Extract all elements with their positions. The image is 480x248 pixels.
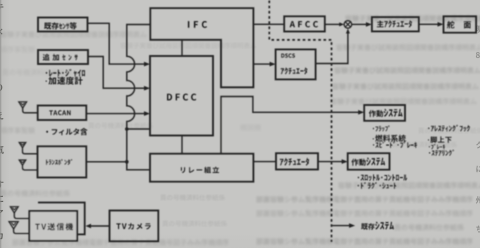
wire summing junction to 主アクチュエータ [352,23,367,25]
label 主アクチュエータ [377,20,412,28]
block TACAN [38,106,87,121]
antenna 1 for TV transmitter [10,207,18,213]
antenna for TACAN [19,102,27,108]
block 舵面 (control surface) [444,16,477,32]
arrowhead into summing junction left [339,22,344,26]
label アクチュエータ lower [280,158,309,166]
label レート・ジャイロ [46,69,85,77]
list item スロットル・コントロール [358,174,407,181]
summing junction circle [344,21,352,29]
wire AFCC to summing junction [325,23,340,25]
arrowhead into TV送信機 [86,224,92,228]
wire IFC-relay vertical bus with crossover hops [127,25,151,170]
arrowhead into 作動システム lower [342,159,348,164]
label 既存システム [361,222,394,230]
list item ドラグ・シュート [358,182,397,189]
list item ステアリング [429,150,454,156]
block AFCC [284,16,325,31]
label TACAN [49,110,70,115]
block アクチュエータ lower (actuator) [276,153,318,169]
wire トランスポンダ output [86,161,127,163]
arrowhead into DFCC input 1 [144,62,150,67]
wire TACAN to DFCC [86,113,145,115]
label AFCC [290,21,318,27]
label DSCS [281,54,295,58]
list item 脚上下 [428,136,452,143]
label 追加センサ [43,54,78,61]
label 作動システム upper [369,109,403,117]
block 追加センサ (added sensors) [38,50,88,64]
junction bus-transponder [125,160,129,164]
block 主アクチュエータ (main actuator) [372,17,419,31]
wire IFC to DFCC [181,40,183,56]
arrowhead into DFCC input 3 [144,111,150,116]
arrowhead 既存システム [349,223,355,228]
label 作動システム lower [352,157,386,165]
wire 主アクチュエータ to 舵面 [419,23,439,25]
arrowhead into 主アクチュエータ [366,22,372,27]
label トランスポンダ [46,159,72,165]
wire riser tap to DSCS [253,63,271,65]
block 作動システム lower (actuation system) [348,153,390,170]
wire 追加センサ to DFCC [88,57,145,89]
wire IFC to AFCC [253,23,284,25]
label 加速度計 [46,77,83,85]
antenna 2 for transponder [19,160,26,165]
block 作動システム upper (actuation system) [364,105,405,121]
wire DFCC to リレー組立 [181,136,183,154]
block TVカメラ (TV camera) [110,211,159,242]
label フィルタ含 [46,128,87,135]
list item ブレーキ [429,144,445,149]
wire TVカメラ to TV送信機 [90,225,110,227]
label TV送信機 [35,223,73,230]
wire 既存センサ to DFCC [88,23,146,64]
arrowhead into summing junction bottom [346,29,350,34]
label DFCC [167,94,196,101]
wire リレー組立 riser to 作動システム upper [221,97,359,154]
arrowhead into 作動システム upper [358,110,364,115]
list item フラップ [373,125,390,131]
label 既存センサ等 [44,22,77,29]
arrowhead into DFCC input 2 [144,86,150,91]
block 既存センサ等 (existing sensors) [38,18,88,32]
wire DSCS to summing junction [316,33,348,64]
block リレー組立 (relay assembly) [150,154,253,182]
antenna 1 for transponder [19,143,26,148]
label IFC [188,21,207,28]
list item アレスティングフック [428,125,470,132]
label リレー組立 [181,167,219,174]
list item スピード・ブレーキ [373,142,417,148]
block TV送信機 back (redundant unit outline) [38,203,85,235]
arrowhead into 舵面 [438,22,444,27]
label TVカメラ [116,223,150,229]
arrowhead into DSCS [270,62,276,67]
list item 燃料系統 [373,135,406,142]
wire アクチュエータ to 作動システム lower [318,161,343,163]
block IFC (bottom edge steps down into DSCS riser loop) [150,8,253,87]
block DSCSアクチュエータ [276,49,316,79]
antenna 2 for TV transmitter [9,222,18,229]
wire bus branch into DFCC input 4 [127,128,150,130]
dashed boundary new/existing systems [269,1,331,242]
wire to 既存システム label [332,225,350,227]
block トランスポンダ (transponder) [38,146,87,177]
block TV送信機 (TV transmitter) [29,211,77,241]
junction bus-DFCC branch [125,127,129,131]
label DSCSアクチュエータ line2 [281,67,308,74]
wire リレー組立 to アクチュエータ [253,161,276,163]
label 舵面 [447,21,471,28]
block DFCC [150,56,213,136]
